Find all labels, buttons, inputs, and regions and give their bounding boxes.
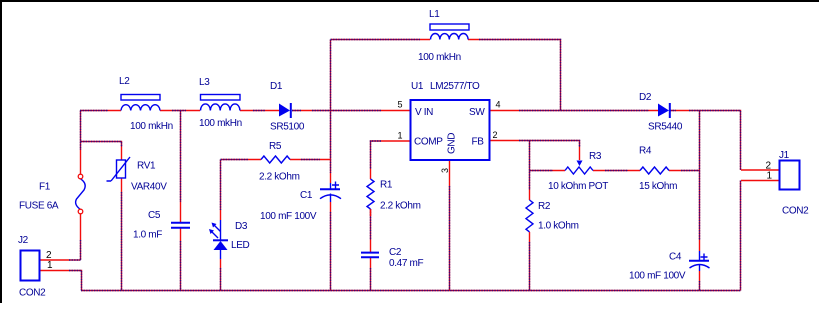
svg-text:1.0 mF: 1.0 mF [133, 230, 162, 241]
svg-text:C1: C1 [300, 190, 313, 201]
wire: C4 branch vertical x=699.5 [699, 111, 701, 291]
svg-text:1: 1 [47, 260, 53, 271]
svg-text:R5: R5 [269, 141, 282, 152]
svg-text:FB: FB [472, 137, 485, 148]
capacitor C2 [361, 253, 379, 258]
pin stubs C4 [699, 240, 701, 281]
diode D1 [279, 103, 291, 118]
wire: SW net y=110 right side [519, 111, 741, 171]
svg-text:J2: J2 [18, 235, 29, 246]
fuse F1 terminal bottom [78, 209, 83, 214]
svg-text:V IN: V IN [415, 107, 433, 118]
svg-text:100 mF 100V: 100 mF 100V [260, 211, 317, 222]
pin stubs L2 [108, 110, 172, 112]
inductor L3 coil [201, 104, 240, 111]
pin stubs C1 [330, 173, 332, 212]
potentiometer R3 body [565, 167, 593, 174]
varistor RV1 [107, 157, 131, 181]
svg-text:SR5440: SR5440 [648, 122, 683, 133]
inductor L1 coil [431, 34, 469, 40]
wire: J1 pin1 to bottom rail x=740.5 [740, 181, 742, 291]
wire: FB net y=140.5 [519, 141, 580, 148]
pin stubs R1 [370, 169, 372, 216]
pin stub U1 pin3 [449, 160, 451, 186]
svg-text:3: 3 [440, 168, 450, 173]
pin stubs R2 [529, 190, 531, 242]
capacitor C4 (polarized) [689, 251, 710, 271]
svg-text:15 kOhm: 15 kOhm [639, 181, 677, 192]
diode D2 [658, 103, 670, 118]
svg-text:1.0 kOhm: 1.0 kOhm [538, 221, 579, 232]
svg-text:100 mF 100V: 100 mF 100V [629, 271, 686, 282]
LED D3 emission arrows [209, 223, 221, 239]
wire: D3 branch vertical x=220.5 [220, 160, 222, 291]
wire: R2 branch vertical x=529.5 [529, 141, 531, 291]
connector J2 box [21, 251, 40, 281]
pin stubs C2 [370, 240, 372, 268]
resistor R4 [640, 167, 669, 174]
pin stubs L1 [420, 39, 479, 41]
svg-text:C5: C5 [148, 210, 161, 221]
svg-text:R2: R2 [538, 201, 551, 212]
svg-text:1: 1 [767, 171, 773, 182]
wire: bottom ground rail y=290.5 [81, 290, 741, 292]
svg-text:VAR40V: VAR40V [131, 182, 167, 193]
svg-text:5: 5 [397, 100, 402, 110]
inductor L1 core [430, 24, 469, 30]
inductor L2 core [121, 95, 160, 101]
svg-text:D2: D2 [639, 92, 652, 103]
wire: GND pin net x=449.5 [449, 186, 451, 291]
wire: fuse branch vertical x=80 [80, 111, 82, 261]
inductor L3 core [201, 95, 241, 101]
wire: COMP net to R1/C2 branch x=370.5 [371, 141, 382, 291]
inductor L2 coil [121, 105, 160, 111]
svg-text:SR5100: SR5100 [270, 122, 305, 133]
svg-text:0.47 mF: 0.47 mF [389, 258, 423, 269]
svg-text:1: 1 [397, 131, 402, 141]
pin stub U1 pin4 [490, 110, 519, 112]
IC U1 box [411, 100, 490, 160]
pin stub U1 pin1 [381, 140, 410, 142]
svg-text:L3: L3 [199, 77, 210, 88]
fuse F1 terminal top [78, 174, 83, 179]
wire: C5 branch vertical x=180.5 [180, 111, 182, 291]
svg-text:2.2 kOhm: 2.2 kOhm [259, 172, 300, 183]
svg-text:100 mkHn: 100 mkHn [418, 52, 461, 63]
svg-text:J1: J1 [779, 150, 790, 161]
pin stubs J2 [40, 260, 69, 271]
wire: RV1 branch [81, 142, 122, 291]
svg-text:C2: C2 [389, 247, 402, 258]
wire: boost node vertical x=330.5 with C1 [330, 40, 332, 291]
pin stubs D2 [649, 110, 689, 112]
wiper stub R3 [579, 147, 581, 160]
svg-text:D3: D3 [235, 221, 248, 232]
svg-text:10 kOhm POT: 10 kOhm POT [548, 181, 608, 192]
fuse F1 body [76, 179, 86, 210]
svg-text:4: 4 [496, 100, 501, 110]
svg-text:LED: LED [231, 240, 250, 251]
resistor R5 [261, 156, 290, 163]
svg-text:CON2: CON2 [782, 206, 809, 217]
svg-text:2.2 kOhm: 2.2 kOhm [380, 201, 421, 212]
svg-text:LM2577/TO: LM2577/TO [430, 81, 480, 92]
svg-text:FUSE 6A: FUSE 6A [19, 201, 59, 212]
capacitor C1 (polarized) [320, 182, 341, 203]
pin stub U1 pin2 [490, 140, 519, 142]
wire: top rail y=39.5 (L1) [331, 40, 561, 111]
svg-text:U1: U1 [411, 81, 424, 92]
svg-text:SW: SW [469, 107, 485, 118]
svg-text:100 mkHn: 100 mkHn [130, 121, 173, 132]
pin stubs RV1 [121, 147, 123, 192]
pin stubs C5 [180, 202, 182, 241]
wire: input rail y=110 [80, 110, 381, 112]
svg-text:D1: D1 [270, 81, 283, 92]
pin stubs D3 [220, 210, 222, 268]
svg-text:2: 2 [493, 130, 498, 140]
pin stubs fuse F1 [80, 150, 82, 240]
capacitor C5 [171, 223, 190, 228]
pin stub U1 pin5 [381, 110, 410, 112]
pin stubs J1 [741, 170, 779, 181]
pin stubs D1 [265, 110, 312, 112]
wire: R5 row y=159.5 [221, 159, 321, 161]
svg-text:F1: F1 [39, 182, 51, 193]
svg-text:L2: L2 [119, 76, 130, 87]
pin stubs R4 [628, 170, 681, 172]
pin stubs R5 [248, 159, 331, 161]
svg-text:R1: R1 [380, 180, 393, 191]
svg-text:L1: L1 [429, 9, 440, 20]
LED D3 [213, 220, 228, 259]
svg-text:R3: R3 [589, 151, 602, 162]
svg-text:CON2: CON2 [19, 288, 46, 299]
resistor R2 [526, 200, 533, 232]
svg-text:R4: R4 [639, 146, 652, 157]
border frame [0, 0, 819, 2]
svg-text:100 mkHn: 100 mkHn [199, 118, 242, 129]
svg-text:C4: C4 [669, 252, 682, 263]
wire: J2 pin2 corner [69, 259, 81, 261]
wire: R3 R4 row y=170.5 [530, 170, 700, 172]
svg-text:RV1: RV1 [137, 161, 156, 172]
svg-text:COMP: COMP [414, 137, 443, 148]
pin stubs R3 [553, 170, 605, 172]
svg-text:GND: GND [447, 133, 458, 154]
potentiometer R3 wiper arrow [577, 161, 583, 167]
connector J1 box [780, 161, 800, 190]
pin stubs L3 [186, 110, 253, 112]
wire: J2 pin1 to bottom rail [69, 271, 82, 291]
resistor R1 [367, 179, 374, 209]
